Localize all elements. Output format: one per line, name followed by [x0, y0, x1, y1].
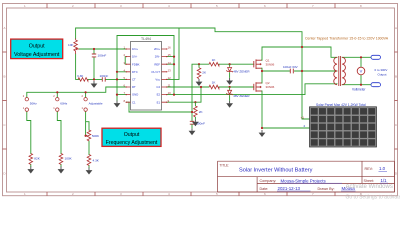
- svg-text:Sheet:: Sheet:: [364, 179, 375, 183]
- svg-text:Center Tapped Transformer 15-0: Center Tapped Transformer 15-0-15 to 220…: [305, 36, 389, 40]
- svg-text:12: 12: [168, 76, 172, 80]
- svg-text:2IN+: 2IN+: [154, 47, 160, 51]
- svg-text:OU CT: OU CT: [151, 70, 160, 74]
- svg-text:100K: 100K: [65, 157, 73, 161]
- svg-text:RT: RT: [132, 85, 136, 89]
- svg-text:REF: REF: [154, 62, 160, 66]
- svg-text:Go to Settings to activate: Go to Settings to activate: [346, 195, 400, 201]
- svg-text:Output: Output: [378, 72, 387, 76]
- svg-text:10: 10: [168, 91, 172, 95]
- svg-text:A: A: [395, 26, 397, 30]
- svg-text:100uF 63V: 100uF 63V: [283, 65, 298, 69]
- svg-text:TITLE:: TITLE:: [220, 163, 230, 167]
- svg-text:Activate Windows: Activate Windows: [346, 184, 393, 190]
- svg-text:4.3K: 4.3K: [93, 159, 100, 163]
- svg-text:CT: CT: [132, 78, 136, 82]
- svg-text:Mousa-Simple Projects: Mousa-Simple Projects: [281, 178, 327, 183]
- svg-text:Output: Output: [124, 132, 140, 138]
- svg-text:Frequency Adjustment: Frequency Adjustment: [106, 140, 158, 146]
- svg-text:Drawn By:: Drawn By:: [318, 187, 335, 191]
- svg-text:1IN-: 1IN-: [132, 55, 137, 59]
- svg-text:30N06: 30N06: [266, 85, 275, 89]
- svg-text:DTC: DTC: [132, 70, 138, 74]
- svg-text:1/1: 1/1: [381, 178, 388, 183]
- svg-text:C1: C1: [132, 100, 136, 104]
- svg-text:TL494: TL494: [141, 37, 151, 41]
- svg-text:500K: 500K: [92, 134, 100, 138]
- svg-text:100nF: 100nF: [100, 74, 109, 78]
- svg-text:Company:: Company:: [260, 179, 277, 183]
- svg-text:Adjustable: Adjustable: [89, 102, 103, 106]
- svg-text:13: 13: [168, 68, 172, 72]
- svg-text:10K: 10K: [68, 43, 74, 47]
- svg-text:A: A: [3, 26, 5, 30]
- svg-text:100nF: 100nF: [196, 122, 205, 126]
- svg-text:2021-12-13: 2021-12-13: [278, 186, 301, 191]
- svg-text:50Hz: 50Hz: [30, 102, 38, 106]
- svg-text:+1: +1: [301, 115, 305, 119]
- svg-text:Solar Panel Max 42V 1.2KW Tota: Solar Panel Max 42V 1.2KW Total: [316, 103, 366, 107]
- svg-text:E2: E2: [157, 93, 161, 97]
- svg-text:GND: GND: [132, 93, 138, 97]
- svg-text:3.3K: 3.3K: [77, 74, 84, 78]
- svg-text:Voltmeter: Voltmeter: [352, 88, 366, 92]
- svg-text:14: 14: [168, 61, 172, 65]
- svg-text:60Hz: 60Hz: [60, 102, 68, 106]
- svg-text:Voltage Adjustment: Voltage Adjustment: [14, 52, 60, 58]
- svg-text:100nF: 100nF: [98, 54, 107, 58]
- svg-text:48V ZENER: 48V ZENER: [233, 94, 250, 98]
- svg-text:C2: C2: [156, 85, 160, 89]
- svg-text:82K: 82K: [34, 157, 40, 161]
- svg-text:0 to 300V: 0 to 300V: [375, 68, 388, 72]
- svg-text:11: 11: [168, 84, 171, 88]
- svg-text:Output: Output: [29, 44, 45, 50]
- svg-text:2IN-: 2IN-: [155, 55, 160, 59]
- svg-text:E1: E1: [157, 100, 161, 104]
- svg-text:1.0: 1.0: [379, 166, 386, 171]
- svg-text:30N06: 30N06: [266, 62, 275, 66]
- svg-text:Solar Inverter Without Battery: Solar Inverter Without Battery: [239, 167, 313, 173]
- svg-text:Date:: Date:: [260, 187, 269, 191]
- svg-text:15: 15: [168, 53, 172, 57]
- svg-text:B: B: [3, 74, 5, 78]
- svg-text:Vcc: Vcc: [155, 78, 160, 82]
- svg-text:V: V: [360, 69, 363, 74]
- svg-text:B: B: [395, 74, 397, 78]
- svg-text:REV:: REV:: [365, 167, 373, 171]
- svg-text:16: 16: [168, 46, 172, 50]
- svg-text:48V ZENER: 48V ZENER: [233, 69, 250, 73]
- svg-text:1IN+: 1IN+: [132, 47, 138, 51]
- svg-text:FDBK: FDBK: [132, 62, 140, 66]
